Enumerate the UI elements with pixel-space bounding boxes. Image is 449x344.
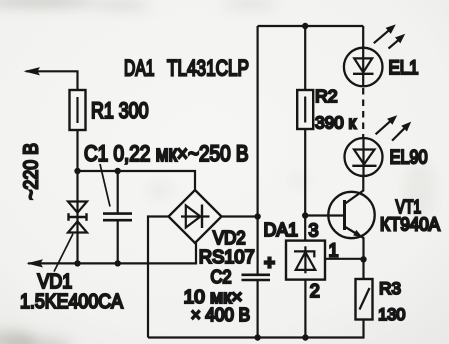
svg-text:DA1: DA1 — [264, 220, 298, 240]
svg-text:C1 0,22 мк×~250 В: C1 0,22 мк×~250 В — [84, 141, 249, 166]
LED EL90 triangle — [354, 150, 375, 165]
LED EL90 arrow 1 — [376, 121, 391, 135]
wire: DA1 pin1 to emitter node — [325, 258, 364, 260]
svg-text:× 400 В: × 400 В — [191, 305, 250, 325]
resistor R3 — [356, 279, 373, 320]
svg-text:~220 В: ~220 В — [20, 143, 43, 200]
resistor R3 power mark slash — [360, 288, 370, 310]
arrow: AC input top — [24, 67, 41, 75]
svg-text:DA1: DA1 — [124, 56, 155, 81]
transistor VT1 emitter arrow — [353, 230, 363, 238]
pointer line C1 label — [100, 164, 110, 207]
wire: bottom rail — [148, 320, 364, 338]
DA1 inner cathode bar with hook — [294, 251, 314, 257]
wire: C1 vertical bottom — [117, 220, 119, 263]
LED EL1 arrow 1 — [374, 30, 390, 43]
resistor R2 — [297, 90, 313, 129]
wire: R1 bottom to node A — [76, 130, 78, 171]
LED EL1 cathode bar — [353, 73, 374, 75]
node: base junction dot — [302, 212, 308, 218]
svg-text:R2: R2 — [315, 86, 338, 106]
wire: bridge right vertex to + rail — [222, 215, 258, 217]
wire: top rail — [258, 25, 364, 27]
node: + rail junction dot — [254, 213, 260, 219]
wire: node A horizontal to bridge top — [78, 171, 196, 190]
node: bottom rail dot C2 — [254, 334, 260, 340]
transistor VT1 emitter — [345, 227, 364, 260]
resistor R2 power mark — [304, 97, 306, 123]
arrow: AC input bottom — [27, 259, 44, 267]
wire: VD1 vertical through — [76, 171, 78, 263]
suppressor VD1 bottom triangle — [68, 221, 87, 232]
transistor VT1 circle — [328, 192, 374, 238]
wire: bridge left vertex to bottom rail — [148, 217, 169, 338]
node A junction dot — [74, 168, 80, 174]
svg-text:390 к: 390 к — [315, 112, 356, 132]
node: C1 top junction dot — [115, 168, 121, 174]
wire: dashed link EL1-EL90 — [362, 88, 364, 138]
wire: R3 top lead — [362, 259, 364, 279]
svg-text:2: 2 — [310, 281, 320, 301]
DA1 inner vertical line — [304, 246, 306, 273]
wire: EL90 vertical — [362, 138, 364, 176]
svg-text:130: 130 — [378, 305, 405, 324]
capacitor C2 plates — [242, 273, 271, 276]
resistor R1 — [70, 90, 86, 130]
svg-text:1.5KE400CA: 1.5KE400CA — [20, 290, 123, 313]
svg-text:EL90: EL90 — [390, 147, 428, 168]
wire: R2 bottom to DA1 pin3 — [304, 129, 306, 241]
svg-text:3: 3 — [308, 221, 318, 241]
capacitor C1 plates — [103, 212, 132, 215]
wire: DA1 pin2 down — [304, 280, 306, 337]
node: VD1 bottom junction dot — [74, 260, 80, 266]
svg-text:VD2: VD2 — [213, 228, 246, 248]
svg-text:R1 300: R1 300 — [91, 98, 149, 123]
svg-text:EL1: EL1 — [389, 58, 419, 79]
transistor VT1 collector — [345, 176, 364, 204]
LED EL1 triangle — [354, 58, 372, 72]
svg-text:RS107: RS107 — [199, 247, 255, 267]
svg-text:+: + — [264, 253, 275, 274]
wire: VT1 base wire — [305, 214, 344, 216]
node: emitter junction dot — [360, 256, 366, 262]
suppressor VD1 left tick — [67, 213, 69, 221]
svg-text:C2: C2 — [211, 267, 232, 287]
LED EL1 arrow 2 — [389, 40, 400, 49]
LED EL90 arrow 2 — [392, 127, 405, 140]
svg-text:1: 1 — [328, 240, 338, 260]
LED EL90 cathode bar — [352, 165, 376, 167]
resistor R1 power mark — [76, 97, 78, 123]
bridge VD2 inner diode cathode — [201, 205, 203, 229]
wire: EL1 vertical — [362, 26, 364, 86]
LED EL90 circle — [345, 138, 383, 176]
node: top rail dot at R2 — [302, 23, 308, 29]
transistor VT1 base bar — [343, 200, 346, 230]
suppressor VD1 middle bar — [69, 216, 87, 219]
suppressor VD1 right tick — [85, 213, 87, 221]
bridge VD2 inner diode line — [181, 215, 210, 217]
LED EL1 circle — [344, 48, 383, 87]
bridge rectifier VD2 diamond — [169, 190, 222, 243]
node: bottom rail dot pin2 — [302, 334, 308, 340]
node: C1 bottom junction dot — [115, 260, 121, 266]
wire: bottom AC input line to bridge bottom — [28, 243, 196, 263]
svg-text:R3: R3 — [379, 279, 401, 298]
wire: C1 vertical top — [117, 171, 119, 214]
suppressor VD1 top triangle — [68, 202, 87, 213]
pointer line VD1 label — [54, 234, 73, 272]
bridge VD2 inner diode triangle — [186, 206, 201, 228]
svg-text:КТ940А: КТ940А — [380, 214, 440, 234]
wire: top AC input line to R1 — [26, 71, 78, 90]
svg-text:TL431CLP: TL431CLP — [167, 56, 249, 81]
svg-text:10 мк×: 10 мк× — [184, 287, 243, 307]
wire: R2 top lead — [304, 26, 306, 90]
IC DA1 TL431 box — [286, 241, 325, 280]
wire: rail below C2 — [257, 280, 259, 338]
wire: + rail vertical — [257, 26, 259, 275]
DA1 inner triangle — [296, 252, 316, 270]
